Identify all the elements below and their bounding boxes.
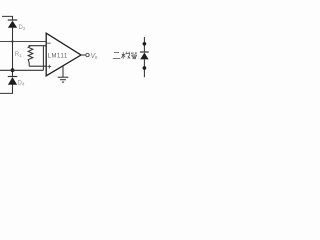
minus sign <box>47 42 51 44</box>
svg-text:D2: D2 <box>19 25 26 31</box>
wire inverting input <box>0 41 46 43</box>
label 二极管 (drawn glyphs) <box>113 52 137 59</box>
legend terminal dot bottom <box>143 66 147 70</box>
wire lower bus <box>0 69 43 71</box>
wire non-inverting input <box>29 65 46 67</box>
plus sign <box>47 65 51 69</box>
op-amp U1 LM111 <box>46 33 81 76</box>
output terminal <box>86 53 89 56</box>
svg-text::: : <box>138 55 139 60</box>
legend wire bottom <box>143 59 145 77</box>
wire upper box line <box>29 45 47 47</box>
ground <box>58 66 69 82</box>
diode D4 <box>8 77 17 85</box>
wire bottom-left corner <box>0 84 13 93</box>
node junction small at inverting wire <box>11 40 13 42</box>
wire top-left corner <box>2 16 13 20</box>
svg-text:D4: D4 <box>18 80 25 86</box>
svg-text:LM111: LM111 <box>48 53 68 59</box>
legend diode <box>140 52 149 59</box>
resistor R1 <box>28 46 33 66</box>
node junction at lower bus wire <box>11 68 15 72</box>
wire vertical link <box>42 46 44 71</box>
legend wire top <box>143 37 145 52</box>
svg-text:R1: R1 <box>15 52 22 58</box>
wire left vertical bus <box>12 27 14 76</box>
legend terminal dot top <box>143 42 147 46</box>
diode D2 <box>8 20 17 28</box>
wire output <box>81 54 86 56</box>
